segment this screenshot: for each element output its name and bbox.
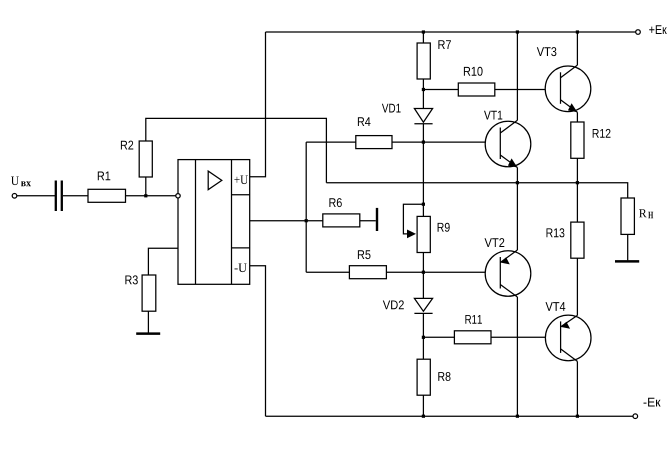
node junction R1/R2 <box>144 194 147 197</box>
wire VT2 emitter up <box>516 183 518 250</box>
wire R9 to VD2 <box>422 253 424 299</box>
pin label +U <box>234 176 248 185</box>
transistor VT4 <box>545 315 591 361</box>
wire R8 to rail <box>422 395 424 416</box>
wire R1 to op-amp input <box>126 195 176 197</box>
wire op-amp lower input to R3 <box>148 248 178 275</box>
resistor R1 <box>88 189 126 202</box>
wire VT2 collector to rail <box>516 297 518 416</box>
resistor R12 <box>571 122 584 158</box>
wire R13 to VT4 emitter <box>576 258 578 315</box>
wire R7 top lead <box>422 32 424 43</box>
label Rn <box>639 209 653 218</box>
wire R5 left lead <box>306 271 349 273</box>
wire R11 left lead <box>423 336 454 338</box>
wire R5 to VT2 base <box>386 271 500 273</box>
label R3 <box>125 275 137 284</box>
node junction R4/VD1 <box>422 141 425 144</box>
wire R4 to VT1 base <box>392 141 500 143</box>
wire R11 to VT4 base <box>491 336 561 338</box>
terminal +Ek <box>636 30 641 35</box>
label R2 <box>121 141 133 150</box>
resistor R13 <box>571 222 584 258</box>
node junction VT3 rail <box>576 30 579 33</box>
label R12 <box>593 129 611 138</box>
wire R4 left lead <box>306 141 356 143</box>
node junction R5/R9/VD2 <box>422 271 425 274</box>
label R1 <box>98 172 111 181</box>
op-amp inverting input circle <box>176 194 180 198</box>
wire output line y183 <box>326 183 627 198</box>
node junction VD2/R11/R8 <box>422 336 425 339</box>
wire VT3 collector to rail <box>576 32 578 65</box>
resistor R2 <box>139 141 152 177</box>
node junction VT4 rail <box>576 415 579 418</box>
wire R10 left lead <box>423 89 458 91</box>
wire op-amp output <box>250 220 307 222</box>
diode VD1 <box>414 109 432 124</box>
diode VD2 <box>414 298 432 313</box>
resistor R11 <box>454 331 491 344</box>
node junction R12/R13/Rn <box>576 181 579 184</box>
wire R6 to terminal bar <box>360 220 376 222</box>
wire output vertical to R4/R5 <box>305 142 307 272</box>
node output junction <box>305 219 308 222</box>
transistor VT3 <box>545 65 591 112</box>
ground under Rn <box>615 260 639 263</box>
wire R7 to VD1 <box>422 79 424 109</box>
terminal -Ek <box>633 414 638 419</box>
pin label -U <box>235 264 247 273</box>
wire R13 top lead <box>576 183 578 222</box>
wire top +Ek rail <box>266 31 636 33</box>
label VD1 <box>382 104 401 113</box>
resistor R9 potentiometer <box>417 216 430 252</box>
transistor VT2 <box>485 250 531 297</box>
resistor R6 <box>323 214 360 227</box>
ground under R3 <box>136 332 160 335</box>
net label -Ek <box>644 398 661 407</box>
label R6 <box>329 198 341 207</box>
node junction VT1/VT2 <box>516 181 519 184</box>
resistor R4 <box>356 136 392 149</box>
resistor R10 <box>458 83 495 96</box>
wire capacitor to R1 <box>63 195 88 197</box>
wire R2 bottom lead <box>145 177 147 196</box>
wire VD2 to R8 <box>422 313 424 359</box>
label R11 <box>465 315 482 324</box>
resistor Rn load <box>621 198 634 234</box>
label R10 <box>464 67 483 76</box>
label R5 <box>358 250 371 259</box>
capacitor C1 <box>56 181 62 212</box>
resistor R8 <box>417 359 430 395</box>
net label +Ek <box>649 25 667 34</box>
label VT3 <box>537 47 557 56</box>
wire VD1 to R9 <box>422 124 424 217</box>
label R8 <box>438 372 450 381</box>
node junction VT2 rail <box>516 415 519 418</box>
label R7 <box>438 40 451 49</box>
node junction R9 wiper tie <box>422 203 425 206</box>
wire R12 to output line <box>576 158 578 182</box>
label VD2 <box>383 300 404 309</box>
wire VT1 emitter down <box>516 168 518 183</box>
terminal Uvx input <box>12 194 17 199</box>
terminal bar after R6 <box>376 208 378 231</box>
resistor R5 <box>349 266 386 279</box>
resistor R3 <box>142 275 156 311</box>
node junction R8 rail <box>422 415 425 418</box>
wire -U supply feed <box>250 266 266 417</box>
wire VT1 collector to rail <box>516 32 518 120</box>
wire +U supply feed <box>250 32 266 177</box>
wire R9 wiper loop <box>403 204 423 234</box>
wire VT4 collector to rail <box>576 361 578 416</box>
wire bottom -Ek rail <box>266 415 633 417</box>
op-amp U1 <box>178 160 250 285</box>
node junction VT1 rail <box>516 30 519 33</box>
node junction R7/R10/VD1 <box>422 88 425 91</box>
label R4 <box>358 117 371 126</box>
label VT1 <box>484 111 502 120</box>
node junction R7 rail <box>422 30 425 33</box>
wire VT3 emitter to R12 <box>576 112 578 122</box>
wire feedback R2 top to output line <box>146 118 327 182</box>
wire input to capacitor <box>17 195 55 197</box>
wire output to R6 <box>306 220 323 222</box>
wire Rn to ground <box>627 234 629 260</box>
label VT2 <box>485 238 505 247</box>
resistor R7 <box>417 43 430 79</box>
wire R3 to ground <box>147 311 149 332</box>
label VT4 <box>546 302 566 311</box>
node label Uvx <box>11 177 31 187</box>
label R13 <box>547 228 565 237</box>
label R9 <box>438 223 450 232</box>
transistor VT1 <box>485 120 531 167</box>
R9 wiper arrow <box>407 230 416 239</box>
wire R10 to VT3 base <box>495 89 561 91</box>
